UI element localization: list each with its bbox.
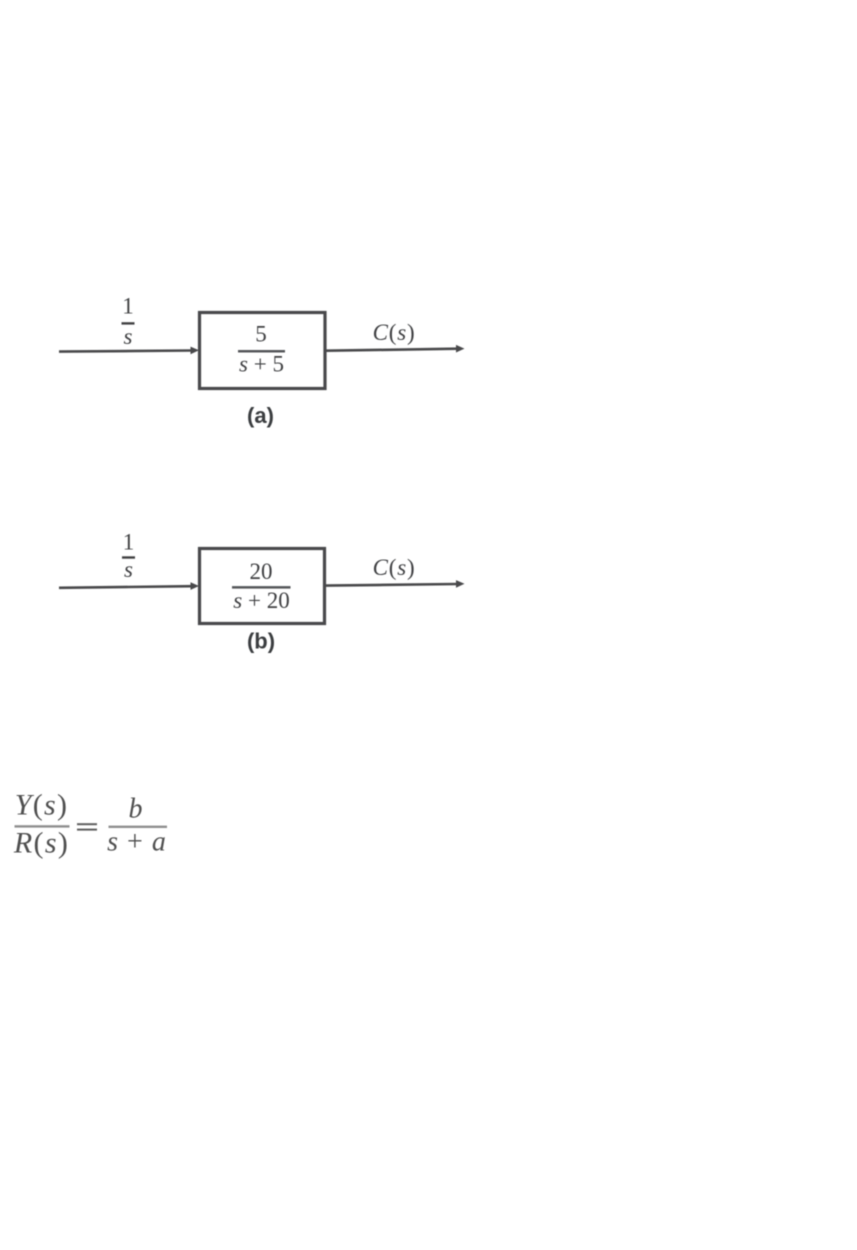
- svg-text:R(s): R(s): [13, 827, 69, 860]
- block G(s)=5/(s+5) box (a): [200, 313, 326, 389]
- wire: input arrow (b): [59, 586, 192, 588]
- wire: output arrow (b): [326, 584, 457, 586]
- block G(s)=20/(s+20) box (b): [200, 549, 325, 624]
- equation fraction bar left: [15, 825, 70, 827]
- svg-text:s + 20: s + 20: [233, 588, 289, 613]
- block (a) fraction bar: [238, 350, 285, 353]
- svg-text:b: b: [129, 794, 143, 825]
- svg-text:1: 1: [122, 294, 134, 319]
- svg-text:20: 20: [250, 559, 273, 584]
- svg-text:s: s: [124, 324, 133, 349]
- wire: output arrow (a): [327, 349, 458, 351]
- svg-text:(b): (b): [247, 629, 275, 654]
- svg-text:s: s: [124, 557, 133, 582]
- svg-text:s + 5: s + 5: [239, 351, 284, 376]
- wire: input arrowhead (a): [191, 347, 200, 355]
- equation equals sign: [77, 823, 97, 825]
- svg-text:s + a: s + a: [107, 827, 167, 858]
- wire: output arrowhead (a): [456, 345, 465, 353]
- svg-text:Y(s): Y(s): [15, 789, 69, 822]
- node: input label 1/s (a) bar: [122, 322, 135, 324]
- svg-text:C(s): C(s): [373, 320, 416, 345]
- wire: input arrow (a): [59, 351, 192, 352]
- node: input label 1/s (b) bar: [122, 556, 135, 558]
- equation fraction bar right: [109, 826, 168, 828]
- wire: output arrowhead (b): [456, 580, 465, 588]
- block (b) fraction bar: [232, 586, 291, 589]
- svg-text:5: 5: [255, 322, 267, 347]
- svg-text:1: 1: [123, 530, 135, 555]
- svg-text:(a): (a): [247, 403, 274, 428]
- wire: input arrowhead (b): [191, 582, 200, 590]
- svg-text:C(s): C(s): [373, 555, 416, 580]
